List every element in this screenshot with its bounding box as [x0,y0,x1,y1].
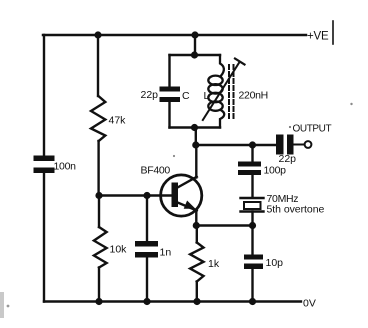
node emitter junction [193,222,200,229]
wire collector [195,145,197,178]
scan speck bottom left [7,305,10,308]
core dashed line right [233,65,235,118]
wire 1n upper [146,196,148,242]
svg-text:1n: 1n [160,247,172,259]
terminal OUTPUT circle [305,141,312,148]
wire 47k to base node [97,141,99,196]
node divider top on +VE rail [94,31,101,38]
wire emitter [195,210,197,226]
node collector junction [192,141,199,148]
wire rail to tank top [194,35,196,55]
scan speck colon before OUTPUT [289,126,291,128]
resistor 10k [94,227,107,268]
capacitor C 22p tank [160,87,181,103]
wire cap to output terminal [294,144,305,146]
wire 1n lower [146,258,148,302]
wire divider top [97,35,99,96]
node 10p bottom on 0V rail [249,298,256,305]
node 1n tap [143,192,150,199]
wire crystal to emitter node [251,212,253,226]
svg-text:100p: 100p [264,165,287,177]
wire 1k lower [196,282,198,302]
node 10k bottom on 0V rail [95,298,102,305]
svg-text:BF400: BF400 [141,165,171,177]
wire emitter horizontal [196,224,253,226]
resistor 1k [190,243,203,282]
crystal X1 70MHz [241,198,264,212]
svg-text:L: L [204,90,210,102]
wire top +VE rail [43,34,306,37]
capacitor 100p [238,162,261,176]
capacitor 100n [34,156,55,174]
core dashed line left [228,65,230,118]
svg-text:0V: 0V [303,298,316,310]
svg-text:10k: 10k [110,244,128,256]
wire base [99,194,172,196]
wire 10p lower [251,269,253,302]
wire tank right upper [220,55,224,76]
wire tank bottom to collector node [195,128,197,146]
inductor L 220nH [208,76,222,111]
svg-text:220nH: 220nH [239,90,268,102]
wire 10k to 0V [98,268,100,302]
svg-text:47k: 47k [109,115,127,127]
wire 100p upper [251,145,253,162]
wire base node to 10k [98,196,100,228]
wire left branch lower [43,173,45,302]
wire tank top [170,54,221,56]
svg-text:1k: 1k [208,258,220,270]
wire tank left lower [168,102,170,128]
svg-text:22p: 22p [141,89,159,101]
wire bottom 0V rail [44,300,301,302]
node 100p tap [249,141,256,148]
scan speck near inductor right [350,103,352,105]
wire artifact tick right of +VE [332,21,334,44]
adjust arrow T bar [235,59,245,65]
node base junction [95,192,102,199]
scan speck near BF400 [173,155,175,157]
adjust arrow shaft [203,62,240,120]
node 1n bottom on 0V rail [143,298,150,305]
node 1k bottom on 0V rail [193,298,200,305]
wire tank left upper [168,55,170,87]
svg-text:22p: 22p [279,153,297,165]
svg-text:100n: 100n [54,161,77,173]
svg-text:10p: 10p [266,257,284,269]
node tank top centre [191,51,198,58]
scan smudge left edge [0,292,4,318]
capacitor 1n [135,241,158,258]
wire left branch upper [43,35,45,156]
capacitor 22p output [276,135,294,155]
svg-text:OUTPUT: OUTPUT [293,124,332,135]
svg-text:5th overtone: 5th overtone [267,204,325,216]
transistor Q1 BF400 [161,175,202,216]
wire 100p to crystal [251,175,253,197]
wire collector node horizontal [196,144,277,146]
svg-text:+VE: +VE [307,31,329,43]
wire 1k upper [196,226,198,243]
wire 10p upper [251,226,253,255]
resistor 47k [91,96,105,141]
svg-text:C: C [182,90,190,102]
wire tank right lower [220,110,224,128]
capacitor 10p [244,255,263,270]
node tank feed on +VE rail [191,31,198,38]
node tank bottom centre [191,124,198,131]
node crystal bottom junction [249,222,256,229]
wire tank bottom [170,126,221,128]
